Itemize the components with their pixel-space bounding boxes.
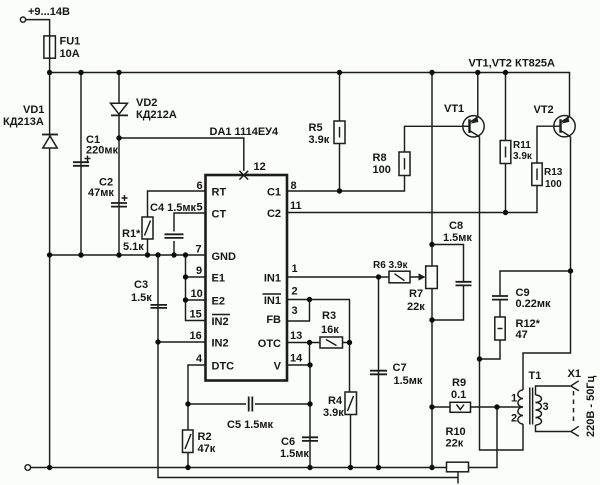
svg-text:E2: E2 bbox=[212, 296, 225, 308]
svg-text:C6: C6 bbox=[281, 436, 295, 448]
svg-text:3.9к: 3.9к bbox=[309, 134, 330, 146]
svg-text:C1: C1 bbox=[267, 187, 281, 199]
svg-text:VT1,VT2 КТ825А: VT1,VT2 КТ825А bbox=[469, 58, 556, 70]
svg-text:10А: 10А bbox=[60, 48, 80, 60]
svg-text:X1: X1 bbox=[568, 368, 581, 380]
svg-text:R10: R10 bbox=[446, 426, 466, 438]
svg-text:14: 14 bbox=[290, 353, 303, 365]
svg-text:1.5мк: 1.5мк bbox=[280, 448, 309, 460]
svg-text:E1: E1 bbox=[212, 273, 225, 285]
svg-text:0.1: 0.1 bbox=[451, 389, 466, 401]
svg-text:15: 15 bbox=[190, 309, 202, 321]
svg-text:100: 100 bbox=[545, 179, 562, 190]
svg-text:R13: R13 bbox=[544, 167, 563, 178]
svg-text:R2: R2 bbox=[198, 431, 212, 443]
svg-text:C5 1.5мк: C5 1.5мк bbox=[227, 419, 274, 431]
svg-text:12: 12 bbox=[254, 161, 266, 173]
svg-text:RT: RT bbox=[212, 187, 227, 199]
svg-text:10: 10 bbox=[191, 288, 203, 300]
svg-text:КД213А: КД213А bbox=[3, 116, 44, 128]
svg-text:C8: C8 bbox=[449, 220, 463, 232]
svg-text:IN1: IN1 bbox=[264, 295, 281, 307]
svg-text:CT: CT bbox=[212, 209, 227, 221]
svg-text:C3: C3 bbox=[134, 279, 148, 291]
svg-text:R4: R4 bbox=[328, 395, 343, 407]
svg-text:16к: 16к bbox=[321, 324, 339, 336]
svg-text:VT2: VT2 bbox=[534, 104, 554, 116]
svg-text:2: 2 bbox=[511, 413, 517, 425]
svg-text:3.9к: 3.9к bbox=[323, 407, 344, 419]
svg-text:3: 3 bbox=[292, 305, 298, 317]
svg-text:47: 47 bbox=[516, 329, 528, 341]
svg-text:220В - 50Гц: 220В - 50Гц bbox=[585, 375, 597, 437]
svg-text:IN1: IN1 bbox=[264, 273, 281, 285]
svg-text:5: 5 bbox=[197, 202, 203, 214]
svg-text:R9: R9 bbox=[452, 377, 466, 389]
svg-text:IN2: IN2 bbox=[212, 338, 229, 350]
svg-text:100: 100 bbox=[373, 164, 391, 176]
svg-text:V: V bbox=[274, 361, 282, 373]
svg-text:5.1к: 5.1к bbox=[123, 241, 144, 253]
svg-text:R5: R5 bbox=[309, 122, 323, 134]
svg-text:FB: FB bbox=[266, 314, 281, 326]
svg-text:1.5мк: 1.5мк bbox=[443, 232, 472, 244]
svg-text:VD1: VD1 bbox=[23, 104, 44, 116]
svg-text:47к: 47к bbox=[198, 443, 216, 455]
svg-text:+9...14В: +9...14В bbox=[28, 6, 70, 18]
svg-text:DA1 1114ЕУ4: DA1 1114ЕУ4 bbox=[210, 126, 279, 138]
svg-text:R8: R8 bbox=[373, 152, 387, 164]
svg-text:R3: R3 bbox=[322, 310, 336, 322]
svg-text:1.5мк: 1.5мк bbox=[394, 375, 423, 387]
svg-text:47мк: 47мк bbox=[88, 187, 114, 199]
svg-text:OTC: OTC bbox=[258, 338, 281, 350]
svg-text:R6 3.9к: R6 3.9к bbox=[373, 260, 408, 271]
svg-text:R7: R7 bbox=[409, 288, 423, 300]
svg-text:11: 11 bbox=[290, 200, 302, 212]
svg-text:GND: GND bbox=[212, 251, 237, 263]
svg-text:22к: 22к bbox=[446, 438, 464, 450]
svg-text:IN2: IN2 bbox=[212, 316, 229, 328]
svg-text:0.22мк: 0.22мк bbox=[516, 298, 552, 310]
svg-text:R1*: R1* bbox=[122, 228, 141, 240]
svg-text:3.9к: 3.9к bbox=[513, 151, 533, 162]
svg-text:DTC: DTC bbox=[212, 361, 235, 373]
svg-text:2: 2 bbox=[292, 286, 298, 298]
svg-text:VT1: VT1 bbox=[444, 103, 464, 115]
svg-text:6: 6 bbox=[197, 180, 203, 192]
svg-text:C2: C2 bbox=[267, 208, 281, 220]
svg-text:8: 8 bbox=[291, 180, 297, 192]
svg-text:1.5к: 1.5к bbox=[131, 292, 152, 304]
svg-text:Т1: Т1 bbox=[529, 370, 542, 382]
svg-text:C7: C7 bbox=[393, 362, 407, 374]
svg-text:КД212А: КД212А bbox=[136, 109, 177, 121]
svg-text:1: 1 bbox=[511, 393, 517, 405]
svg-text:22к: 22к bbox=[407, 301, 425, 313]
svg-text:1: 1 bbox=[292, 263, 298, 275]
svg-text:R11: R11 bbox=[513, 140, 531, 151]
svg-text:7: 7 bbox=[196, 244, 202, 256]
svg-text:4: 4 bbox=[196, 353, 203, 365]
svg-text:13: 13 bbox=[290, 330, 302, 342]
svg-text:FU1: FU1 bbox=[60, 36, 81, 48]
svg-text:16: 16 bbox=[190, 330, 202, 342]
svg-text:3: 3 bbox=[543, 401, 549, 413]
svg-text:C4 1.5мк: C4 1.5мк bbox=[150, 202, 197, 214]
svg-text:VD2: VD2 bbox=[136, 97, 157, 109]
svg-text:220мк: 220мк bbox=[86, 145, 118, 157]
svg-text:9: 9 bbox=[196, 265, 202, 277]
